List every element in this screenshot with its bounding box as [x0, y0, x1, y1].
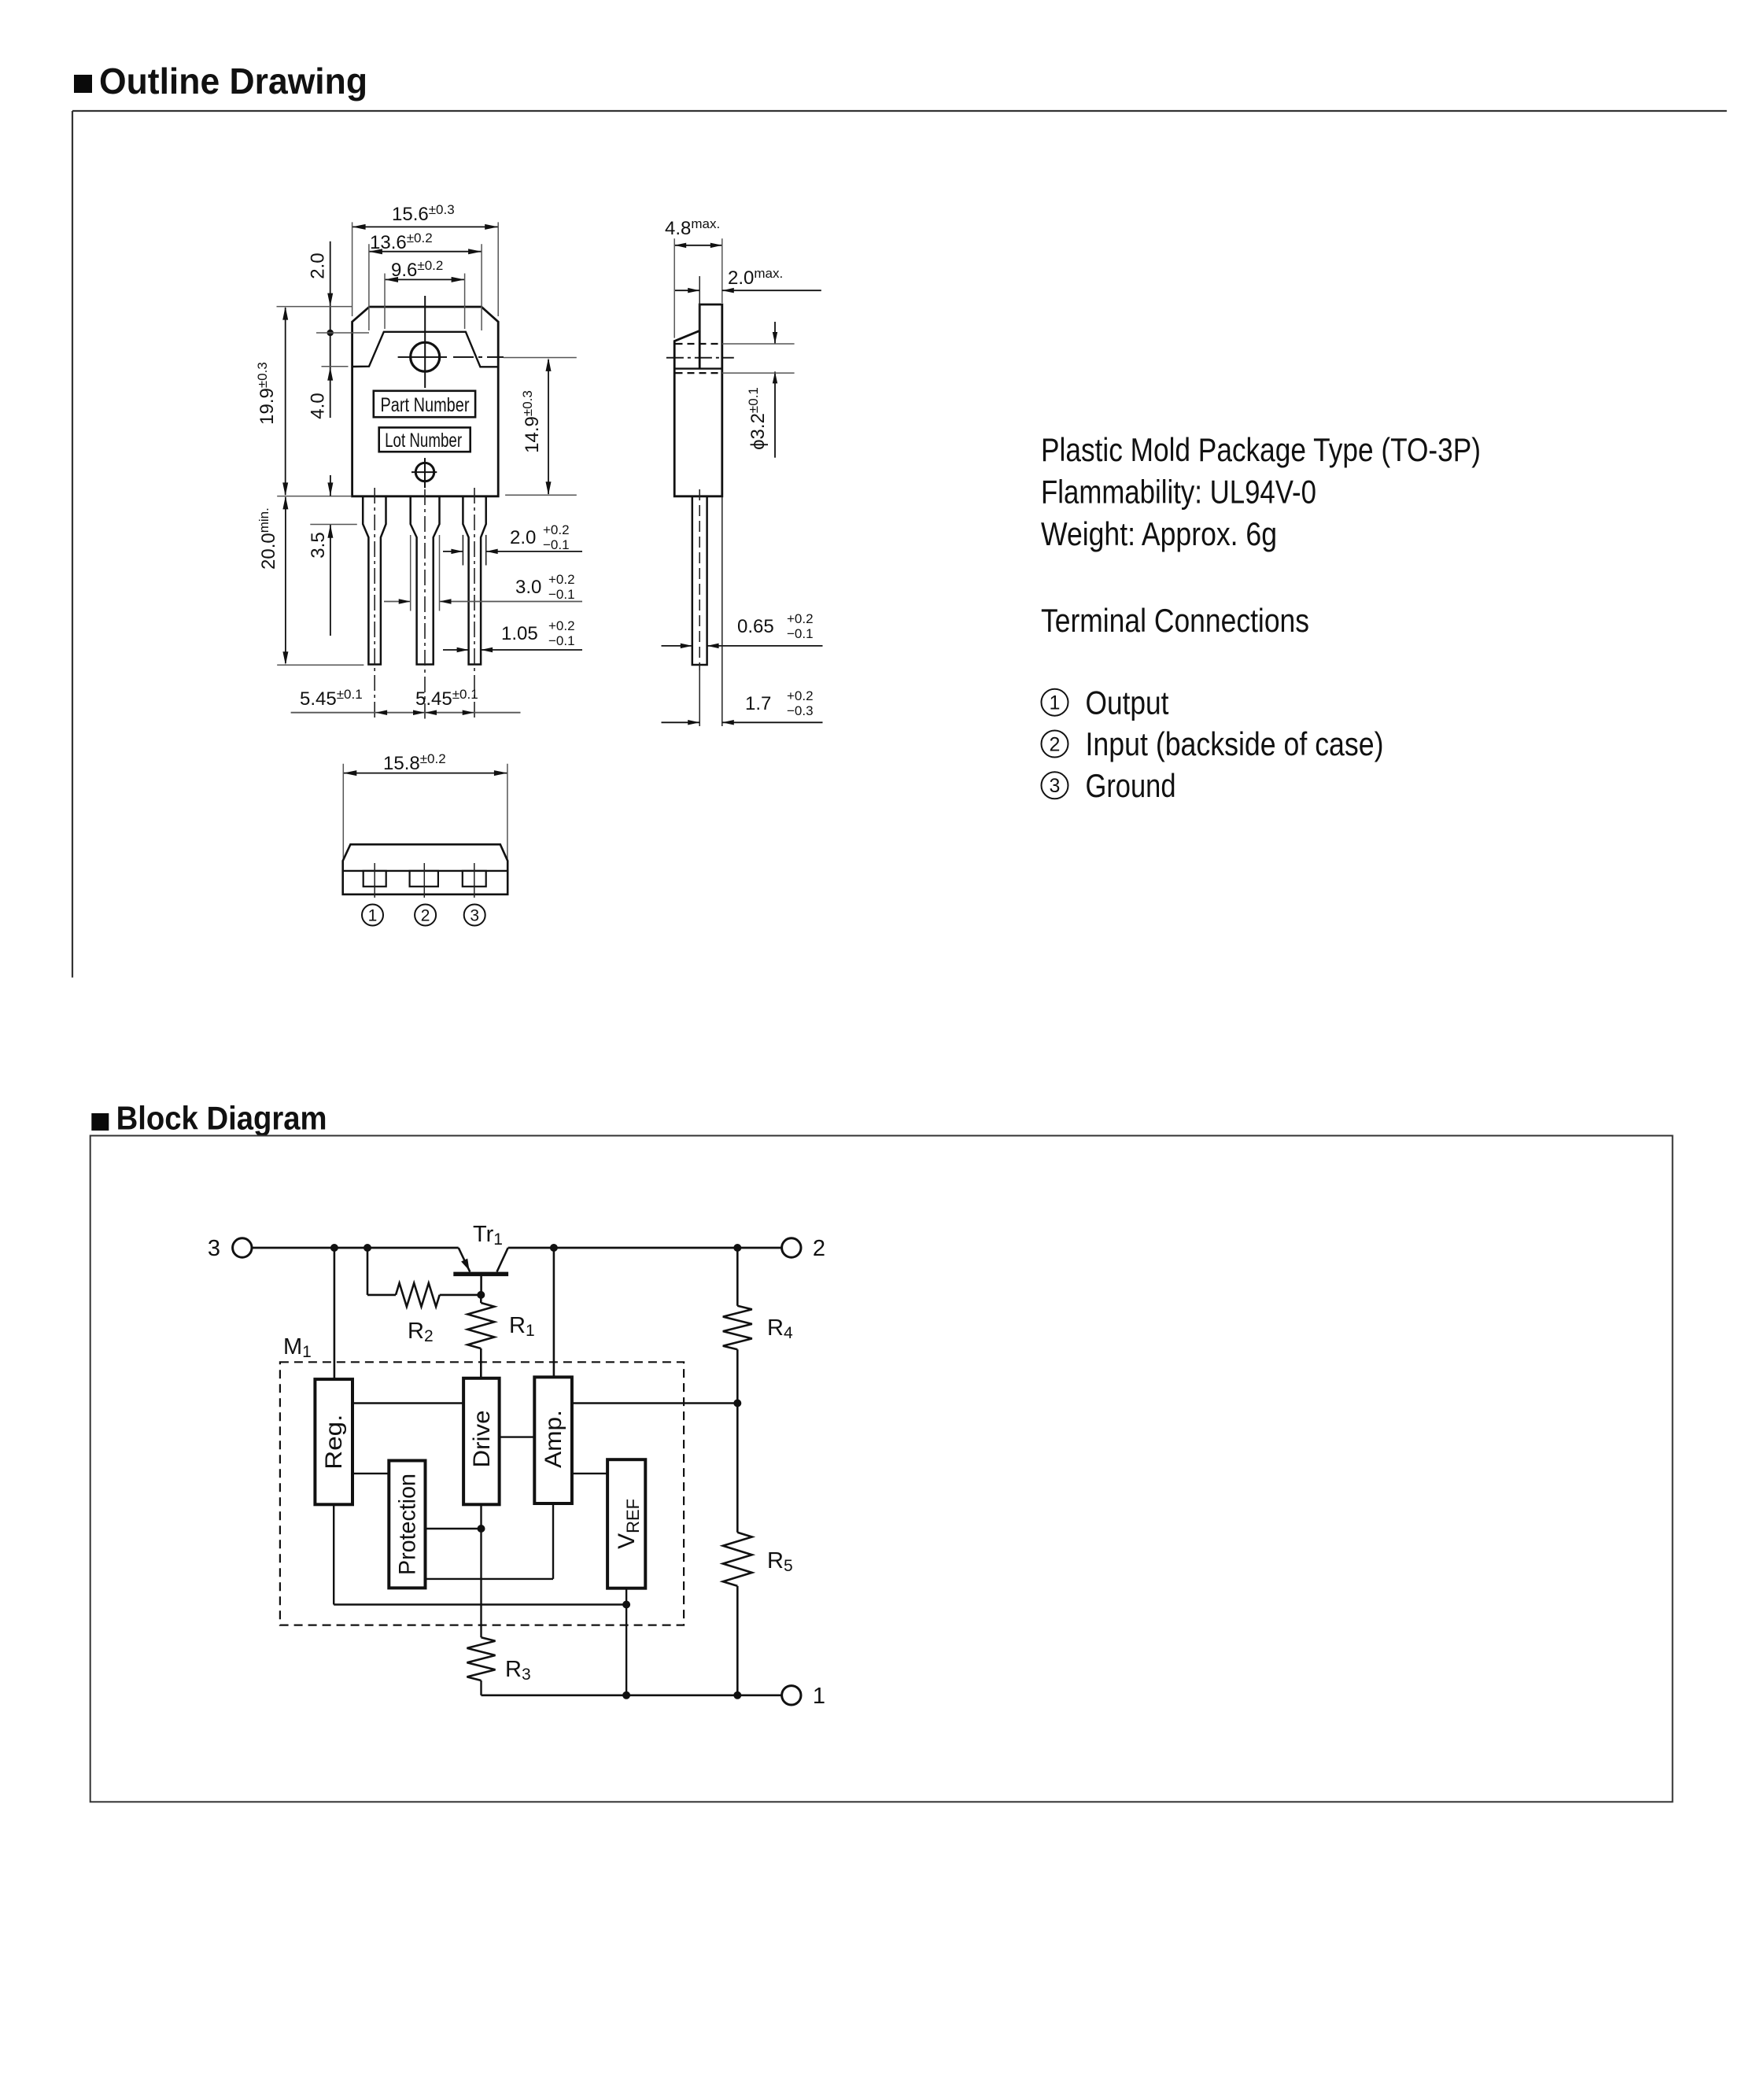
- resistor R5: [723, 1404, 793, 1695]
- dimension 2.0 max (tab thickness): [675, 266, 821, 330]
- svg-text:9.6±0.2: 9.6±0.2: [391, 258, 443, 281]
- package bottom view outline: [343, 844, 508, 895]
- wire: rail to Reg: [334, 1248, 336, 1379]
- svg-text:3.5: 3.5: [308, 532, 329, 558]
- svg-text:4.8max.: 4.8max.: [665, 216, 720, 239]
- block Amp: [534, 1377, 572, 1503]
- terminal 2 list item: [1042, 725, 1384, 762]
- dimension 1.05 +0.2/-0.1 (lead thickness): [443, 618, 582, 652]
- svg-text:1: 1: [368, 907, 378, 925]
- bottom view foot 1: [364, 863, 386, 898]
- svg-text:R1: R1: [509, 1313, 535, 1340]
- svg-text:Outline Drawing: Outline Drawing: [99, 61, 367, 101]
- svg-text:Plastic Mold Package Type (TO-: Plastic Mold Package Type (TO-3P): [1041, 431, 1481, 468]
- node: bottom rail / R5: [733, 1691, 741, 1699]
- dimension 14.9 +-0.3 (hole center height): [504, 358, 577, 496]
- node: rail junction to R2: [364, 1244, 371, 1252]
- svg-text:M1: M1: [283, 1334, 312, 1361]
- bottom view foot 2: [410, 863, 438, 898]
- svg-text:−0.1: −0.1: [543, 537, 570, 552]
- wire: Amp to R4 node: [572, 1402, 737, 1404]
- resistor R2: [367, 1248, 481, 1345]
- svg-text:Reg.: Reg.: [321, 1415, 347, 1470]
- dimension 0.65 +0.2/-0.1 (lead thickness side): [662, 611, 823, 648]
- svg-text:+0.2: +0.2: [787, 688, 814, 703]
- transistor Tr1: [453, 1222, 508, 1295]
- side view lead: [692, 489, 707, 726]
- node: base of Tr1: [477, 1291, 485, 1299]
- svg-text:Drive: Drive: [469, 1411, 495, 1468]
- svg-text:1.7: 1.7: [745, 693, 771, 714]
- mounting hole: [398, 296, 504, 388]
- wire: Reg to Drive: [352, 1402, 463, 1404]
- svg-text:15.8±0.2: 15.8±0.2: [383, 751, 446, 774]
- lower pilot hole: [411, 458, 437, 488]
- svg-text:Terminal Connections: Terminal Connections: [1041, 602, 1309, 639]
- block Protection: [389, 1461, 425, 1588]
- wire: rail to Amp: [553, 1248, 555, 1377]
- svg-text:Amp.: Amp.: [541, 1410, 566, 1468]
- svg-text:+0.2: +0.2: [787, 611, 814, 626]
- svg-text:3: 3: [1050, 775, 1061, 797]
- svg-text:−0.1: −0.1: [787, 626, 814, 641]
- terminal 1 list item: [1042, 684, 1169, 721]
- svg-text:20.0min.: 20.0min.: [256, 507, 279, 570]
- node: R4/R5 junction: [733, 1400, 741, 1407]
- pin number 2 circled: [415, 905, 436, 926]
- svg-text:5.45±0.1: 5.45±0.1: [300, 687, 363, 710]
- svg-text:R3: R3: [505, 1657, 531, 1684]
- dimension 4.8 max (body thickness): [665, 216, 722, 338]
- svg-text:3: 3: [470, 907, 479, 925]
- wire: Reg bottom to VREF line: [334, 1504, 626, 1604]
- block diagram frame: [90, 1136, 1673, 1802]
- dimension 5.45 +-0.1 (lead pitch left): [291, 687, 521, 715]
- svg-text:Flammability: UL94V-0: Flammability: UL94V-0: [1041, 474, 1316, 511]
- lead center lines: [375, 488, 474, 719]
- svg-text:+0.2: +0.2: [548, 572, 575, 587]
- terminal 3 list item: [1042, 767, 1176, 804]
- svg-text:19.9±0.3: 19.9±0.3: [255, 362, 278, 425]
- node: on Drive lower line: [478, 1525, 485, 1533]
- pin number 3 circled: [464, 905, 485, 926]
- svg-text:ϕ3.2±0.1: ϕ3.2±0.1: [746, 387, 769, 450]
- section heading: Outline Drawing: [74, 61, 367, 101]
- wire: VREF down to bottom rail: [626, 1588, 627, 1695]
- svg-text:5.45±0.1: 5.45±0.1: [415, 687, 478, 710]
- svg-text:R4: R4: [767, 1315, 793, 1342]
- dimension 15.6 +-0.3 (package width): [352, 202, 499, 316]
- outline drawing frame: [72, 111, 1727, 978]
- dimension 13.6 +-0.2 (top edge width): [369, 231, 482, 330]
- svg-text:Ground: Ground: [1086, 767, 1176, 804]
- side view hole hidden lines: [666, 344, 734, 373]
- svg-text:2.0max.: 2.0max.: [728, 266, 783, 289]
- svg-text:−0.1: −0.1: [548, 587, 575, 602]
- svg-text:Block Diagram: Block Diagram: [116, 1099, 327, 1136]
- wire: Reg to Protection: [352, 1473, 389, 1474]
- svg-text:Part Number: Part Number: [381, 394, 470, 416]
- svg-text:+0.2: +0.2: [548, 618, 575, 633]
- svg-text:2.0: 2.0: [510, 527, 536, 548]
- svg-text:Tr1: Tr1: [473, 1222, 503, 1249]
- svg-text:Output: Output: [1086, 684, 1169, 721]
- section heading: Block Diagram: [91, 1099, 327, 1136]
- svg-text:2.0: 2.0: [308, 253, 329, 279]
- module M1 dashed box: [280, 1334, 684, 1625]
- dimension 19.9 +-0.3 (body height): [255, 307, 352, 496]
- svg-text:0.65: 0.65: [737, 616, 774, 637]
- svg-text:2: 2: [421, 907, 430, 925]
- package side view outline: [674, 304, 722, 496]
- svg-text:1: 1: [813, 1684, 825, 1709]
- dimension 1.7 +0.2/-0.3 (lead offset): [662, 497, 823, 726]
- svg-text:2: 2: [1050, 733, 1061, 755]
- lead 2 (middle) front view: [411, 496, 440, 665]
- svg-text:Lot Number: Lot Number: [385, 430, 462, 452]
- lead 3 (right) front view: [463, 496, 485, 665]
- svg-text:2: 2: [813, 1236, 825, 1261]
- wire: Drive down to R3: [480, 1504, 482, 1637]
- dimension phi 3.2 +-0.1 (hole diameter): [722, 322, 795, 458]
- svg-text:3: 3: [208, 1236, 220, 1261]
- block Drive: [463, 1378, 500, 1505]
- svg-text:R5: R5: [767, 1548, 793, 1575]
- svg-text:−0.3: −0.3: [787, 703, 814, 718]
- package description text: [1041, 431, 1481, 639]
- svg-text:R2: R2: [408, 1319, 434, 1345]
- node: rail junction to R4: [733, 1244, 741, 1252]
- resistor R4: [723, 1248, 793, 1404]
- package front view outline: [352, 307, 499, 496]
- lead 1 (left) front view: [363, 496, 386, 665]
- package front mold step line: [352, 332, 499, 367]
- resistor R3: [467, 1637, 531, 1695]
- wire: top rail from Tr1 collector to terminal 2: [508, 1247, 782, 1249]
- dimension 4.0 (step height): [308, 393, 329, 419]
- bottom view foot 3: [463, 863, 486, 898]
- pin number 1 circled: [362, 905, 383, 926]
- wire: top rail from terminal 3 to Tr1 emitter: [253, 1247, 459, 1249]
- svg-text:1.05: 1.05: [501, 623, 538, 644]
- dimension 5.45 +-0.1 (lead pitch right): [415, 687, 478, 715]
- wire: Protection to Drive base line: [426, 1528, 482, 1529]
- block VREF: [607, 1459, 645, 1588]
- node: bottom rail / VREF: [622, 1691, 630, 1699]
- dimension 3.5 (shoulder length): [308, 475, 357, 636]
- block Reg: [315, 1379, 352, 1504]
- node: rail junction to Reg: [330, 1244, 338, 1252]
- wire: Drive to Amp: [500, 1436, 535, 1437]
- node: rail junction to Amp: [550, 1244, 558, 1252]
- dimension 15.8 +-0.2 (bottom view width): [343, 751, 507, 865]
- dimension 20.0 min (lead length): [256, 496, 364, 665]
- svg-text:4.0: 4.0: [308, 393, 329, 419]
- svg-text:−0.1: −0.1: [548, 633, 575, 648]
- dimension 9.6 +-0.2 (mold step width): [385, 258, 465, 329]
- Lot Number label box: [379, 427, 471, 452]
- terminal 3: [208, 1236, 252, 1261]
- svg-text:Protection: Protection: [394, 1474, 420, 1575]
- svg-text:15.6±0.3: 15.6±0.3: [392, 202, 455, 225]
- terminal 2: [782, 1236, 825, 1261]
- svg-text:Weight: Approx. 6g: Weight: Approx. 6g: [1041, 515, 1277, 552]
- dimension 2.0 +0.2/-0.1 (outer lead width): [443, 522, 582, 566]
- wire: Protection to Amp bottom: [426, 1503, 554, 1579]
- svg-text:3.0: 3.0: [515, 577, 541, 598]
- terminal 1: [782, 1684, 825, 1709]
- svg-text:Input (backside of case): Input (backside of case): [1086, 725, 1384, 762]
- Part Number label box: [374, 391, 475, 417]
- node: on VREF line: [622, 1601, 630, 1609]
- wire: Amp to VREF: [572, 1473, 607, 1474]
- svg-text:1: 1: [1050, 692, 1061, 714]
- svg-text:+0.2: +0.2: [543, 522, 570, 537]
- svg-text:14.9±0.3: 14.9±0.3: [520, 390, 543, 453]
- dimension 3.0 +0.2/-0.1 (center lead width): [384, 535, 582, 611]
- resistor R1: [467, 1295, 534, 1378]
- wire: bottom rail: [482, 1695, 782, 1697]
- dimension 2.0 (chamfer depth, left): [308, 242, 369, 418]
